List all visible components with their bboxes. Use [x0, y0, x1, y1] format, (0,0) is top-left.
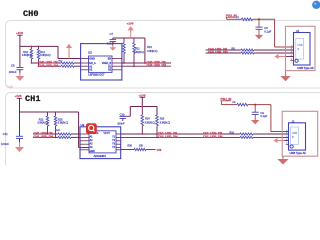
svg-text:GND: GND	[90, 151, 95, 153]
svg-text:GND: GND	[89, 58, 95, 61]
svg-text:3.3K(N.C): 3.3K(N.C)	[147, 51, 157, 53]
svg-text:J2: J2	[292, 119, 295, 123]
svg-text:R11: R11	[135, 47, 140, 50]
svg-text:CH0_USB_DM: CH0_USB_DM	[147, 63, 167, 67]
svg-text:C6: C6	[264, 26, 268, 30]
svg-text:R16: R16	[23, 51, 28, 54]
svg-text:R10: R10	[230, 131, 235, 134]
svg-text:CH1_USB_DM: CH1_USB_DM	[158, 134, 178, 138]
svg-text:C7: C7	[110, 32, 114, 36]
svg-text:U2: U2	[88, 50, 92, 54]
svg-text:J4: J4	[296, 29, 299, 33]
svg-text:USB: USB	[292, 132, 297, 135]
svg-text:C8: C8	[11, 64, 15, 68]
svg-text:R24: R24	[145, 118, 150, 121]
svg-text:100nF: 100nF	[1, 142, 9, 146]
svg-text:CH0: CH0	[23, 9, 38, 19]
svg-text:R12: R12	[40, 51, 45, 54]
svg-text:1V8: 1V8	[157, 148, 162, 152]
svg-text:USB: USB	[298, 44, 303, 47]
svg-text:+1V8: +1V8	[127, 21, 134, 25]
svg-text:100nF: 100nF	[117, 122, 125, 126]
svg-text:3.3K(N.C): 3.3K(N.C)	[22, 55, 32, 57]
svg-text:3.3K(N.C): 3.3K(N.C)	[40, 55, 50, 57]
svg-text:LSF0102 DCT: LSF0102 DCT	[88, 72, 105, 76]
svg-text:R13: R13	[147, 46, 152, 49]
svg-text:R22: R22	[39, 118, 44, 121]
svg-text:EN: EN	[108, 58, 112, 61]
svg-text:3.3K(N.C): 3.3K(N.C)	[38, 122, 48, 124]
svg-text:100nF: 100nF	[107, 41, 115, 45]
svg-text:0.1μF: 0.1μF	[260, 114, 267, 118]
svg-text:+1V8: +1V8	[15, 94, 22, 98]
svg-text:10K: 10K	[139, 144, 144, 147]
svg-text:+1V8: +1V8	[139, 93, 146, 97]
svg-text:USB Type AF: USB Type AF	[290, 151, 307, 155]
svg-text:C10: C10	[120, 112, 125, 116]
svg-text:R30: R30	[128, 144, 133, 147]
svg-text:USB: USB	[8, 85, 14, 89]
svg-text:3.3K(N.C): 3.3K(N.C)	[58, 122, 68, 124]
svg-text:CH1_USB_DM: CH1_USB_DM	[203, 134, 223, 138]
svg-text:USB Type AF: USB Type AF	[297, 66, 314, 70]
svg-text:ADG3304: ADG3304	[94, 154, 107, 158]
svg-text:CH1_USB_DM: CH1_USB_DM	[34, 134, 54, 138]
svg-text:C11: C11	[3, 132, 8, 136]
svg-text:3.3K(N.C): 3.3K(N.C)	[160, 122, 170, 124]
svg-text:CH0_USB_DM: CH0_USB_DM	[208, 50, 228, 54]
svg-text:0.1μF: 0.1μF	[264, 29, 271, 33]
svg-text:3.3K(N.C): 3.3K(N.C)	[145, 122, 155, 124]
svg-text:+1V8: +1V8	[16, 31, 23, 35]
svg-text:CH0_USB_DM: CH0_USB_DM	[39, 63, 59, 67]
svg-text:C9: C9	[260, 111, 264, 115]
svg-text:100nF: 100nF	[9, 70, 17, 74]
svg-text:U3: U3	[81, 123, 85, 127]
svg-text:R25: R25	[58, 118, 63, 121]
svg-text:3.3K(N.C): 3.3K(N.C)	[134, 52, 144, 54]
svg-text:R26: R26	[160, 118, 165, 121]
svg-text:CH1: CH1	[25, 94, 40, 104]
svg-text:VCCY: VCCY	[104, 133, 111, 135]
